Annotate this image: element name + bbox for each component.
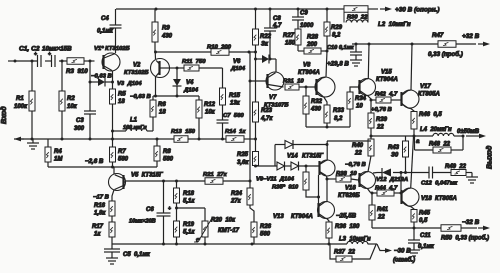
- svg-text:КТ904А: КТ904А: [376, 77, 398, 83]
- resistor R21: [205, 178, 223, 185]
- diode V10: [291, 162, 299, 170]
- ground output: [466, 176, 478, 178]
- svg-text:+32 В: +32 В: [462, 33, 480, 40]
- svg-text:R11 750: R11 750: [182, 59, 206, 65]
- svg-text:З0: З0: [391, 153, 399, 159]
- resistor R12: [196, 100, 202, 118]
- arrow +30V: [380, 8, 388, 10]
- svg-text:150: 150: [285, 41, 296, 47]
- svg-text:С10 0,1мк: С10 0,1мк: [327, 45, 355, 51]
- junction dots bottom rail: [162, 243, 165, 246]
- resistor R15: [220, 88, 226, 105]
- resistor R16: [109, 201, 115, 216]
- svg-text:КТ626Б: КТ626Б: [338, 193, 360, 199]
- wire R6 to L1 node: [152, 117, 154, 131]
- svg-text:КМТ-17: КМТ-17: [218, 228, 240, 234]
- inductor L2: [343, 8, 345, 23]
- resistor R47: [438, 41, 456, 48]
- svg-text:V5 КТ315Г: V5 КТ315Г: [131, 173, 163, 179]
- svg-text:R23: R23: [261, 108, 273, 114]
- svg-text:R19: R19: [183, 222, 195, 228]
- svg-text:С11: С11: [420, 233, 431, 239]
- wire: +30V reference top rail: [116, 8, 344, 10]
- wire V8 collector: [326, 51, 327, 77]
- svg-text:−25,5В: −25,5В: [336, 213, 357, 220]
- svg-text:1000: 1000: [300, 23, 314, 29]
- wire C3/V3 branch: [89, 61, 91, 111]
- svg-text:5,1к: 5,1к: [183, 230, 195, 236]
- svg-text:R47: R47: [432, 32, 444, 39]
- arrow +32V: [478, 43, 486, 45]
- wire V2 base line: [169, 67, 184, 69]
- svg-text:R15: R15: [229, 93, 241, 99]
- capacitor C10: [355, 44, 357, 52]
- svg-text:R38 10: R38 10: [336, 171, 357, 177]
- wire emitter bus y96: [156, 95, 200, 97]
- svg-text:4,7: 4,7: [272, 23, 282, 29]
- wire R34 top to V15 base: [350, 87, 359, 92]
- svg-text:Зк: Зк: [261, 42, 269, 48]
- svg-text:1М: 1М: [54, 157, 63, 163]
- svg-text:18: 18: [118, 99, 125, 105]
- resistor R5: [110, 89, 116, 104]
- svg-text:+: +: [34, 52, 37, 58]
- svg-text:R2: R2: [67, 96, 75, 102]
- wire R22-R23: [255, 45, 257, 102]
- input terminal: [8, 60, 15, 62]
- svg-text:5,1к: 5,1к: [183, 199, 195, 205]
- svg-text:18: 18: [159, 110, 166, 116]
- svg-text:R33: R33: [333, 108, 345, 114]
- svg-text:R9: R9: [162, 26, 170, 32]
- svg-text:R46 0,5: R46 0,5: [419, 112, 442, 118]
- wire V16 emitter: [368, 189, 373, 193]
- capacitor C6: [163, 181, 165, 213]
- arrow output mid: [466, 135, 482, 137]
- wire: input line: [15, 60, 38, 62]
- junction dots +32 rail: [355, 43, 358, 46]
- svg-text:Д104: Д104: [183, 88, 199, 94]
- svg-text:+0,76 В: +0,76 В: [371, 107, 393, 113]
- resistor R39: [370, 100, 372, 113]
- resistor R3: [67, 58, 84, 65]
- svg-text:C4: C4: [101, 16, 109, 22]
- svg-text:10к: 10к: [205, 110, 216, 116]
- svg-text:13к: 13к: [230, 101, 241, 107]
- wire R9 to V2: [154, 42, 156, 52]
- svg-text:R25: R25: [237, 152, 249, 158]
- svg-text:V6: V6: [233, 59, 241, 65]
- resistor R50: [441, 225, 461, 232]
- svg-text:V12 Д219А: V12 Д219А: [376, 177, 408, 183]
- svg-text:V7: V7: [269, 95, 277, 101]
- svg-text:580: 580: [118, 157, 129, 163]
- wire R38 to V16 base: [351, 179, 358, 180]
- arrow -30V: [382, 250, 388, 252]
- transistor V8: [315, 77, 335, 97]
- svg-text:22: 22: [354, 151, 362, 157]
- wire mid Vbe line: [327, 140, 371, 142]
- transistor V2: [151, 59, 170, 78]
- svg-text:100к: 100к: [14, 104, 28, 110]
- wire R35 bottom: [306, 190, 319, 197]
- svg-text:R3 910: R3 910: [66, 68, 88, 75]
- wire mid collector: [326, 141, 328, 160]
- wire R27 bottom: [297, 45, 299, 51]
- svg-text:27к: 27к: [230, 199, 242, 205]
- svg-text:R1: R1: [16, 96, 24, 102]
- resistor R8: [156, 139, 158, 146]
- svg-text:1к: 1к: [94, 232, 101, 238]
- resistor R33: [324, 105, 330, 123]
- transistor V18: [401, 188, 419, 206]
- svg-text:10: 10: [356, 104, 363, 110]
- svg-text:L2 10мкГн: L2 10мкГн: [378, 21, 411, 28]
- svg-text:3,6к: 3,6к: [237, 160, 249, 166]
- wire: Vbe column x318: [318, 175, 320, 209]
- junction dots mid rail: [31, 138, 34, 141]
- wire -30V branch: [377, 244, 382, 251]
- resistor R34: [347, 92, 353, 109]
- transistor V16: [359, 172, 376, 189]
- resistor R10: [211, 49, 229, 56]
- svg-text:+30 В (опорн.): +30 В (опорн.): [395, 7, 440, 14]
- svg-text:R16: R16: [94, 203, 106, 209]
- diode V4: [176, 68, 178, 79]
- svg-text:КТ3102Б: КТ3102Б: [124, 70, 149, 76]
- wire R49 to ground: [466, 172, 472, 174]
- resistor R49: [451, 170, 466, 176]
- svg-text:R18: R18: [183, 191, 195, 197]
- svg-text:V18 КТ805А: V18 КТ805А: [421, 196, 457, 202]
- svg-text:22: 22: [376, 125, 384, 131]
- svg-text:V16: V16: [345, 186, 356, 192]
- wire V18 base vert: [400, 173, 402, 191]
- resistor R26: [251, 222, 257, 237]
- junction dots node a: [370, 135, 373, 138]
- svg-text:С8: С8: [273, 16, 281, 22]
- svg-text:КТ3107Б: КТ3107Б: [264, 103, 289, 109]
- svg-text:C7 560: C7 560: [223, 113, 244, 119]
- svg-text:V15: V15: [381, 70, 392, 76]
- resistor R37 loop: [330, 244, 336, 259]
- wire V1 emitter: [112, 71, 114, 90]
- resistor R2: [59, 91, 65, 111]
- resistor R18: [176, 181, 178, 188]
- svg-text:R4: R4: [54, 149, 62, 155]
- wire R1 branch: [31, 61, 33, 91]
- wire V14 line: [275, 144, 285, 146]
- svg-text:R27: R27: [283, 33, 295, 39]
- resistor R25: [253, 152, 259, 166]
- resistor R44: [372, 192, 377, 194]
- svg-text:0±50мВ: 0±50мВ: [457, 129, 480, 135]
- resistor R31: [285, 84, 299, 90]
- wire: -32V rail: [372, 227, 441, 229]
- svg-text:8,2: 8,2: [334, 116, 343, 122]
- transistor V15: [359, 79, 376, 96]
- svg-text:8,2: 8,2: [332, 33, 341, 39]
- svg-text:C5 0,1мк: C5 0,1мк: [123, 252, 151, 258]
- svg-text:R49 22: R49 22: [445, 164, 467, 170]
- svg-text:L4 20мкГн: L4 20мкГн: [420, 127, 452, 133]
- svg-text:−0,63 В: −0,63 В: [91, 74, 113, 80]
- svg-text:R26: R26: [260, 224, 272, 230]
- svg-text:−32 В: −32 В: [462, 219, 480, 226]
- wire V18 emitter: [411, 207, 414, 210]
- wire R24-R26 link: [250, 205, 254, 222]
- wire V15 collector: [367, 44, 370, 78]
- capacitor C3: [84, 110, 96, 112]
- wire R25 bottom: [255, 165, 257, 168]
- svg-text:L1: L1: [130, 118, 138, 124]
- svg-text:C3: C3: [76, 118, 84, 124]
- arrow -32V: [478, 227, 486, 229]
- resistor R14: [226, 136, 244, 143]
- svg-text:430: 430: [161, 34, 173, 40]
- resistor R42: [371, 99, 376, 101]
- resistor R7: [112, 139, 114, 147]
- resistor R24: [249, 181, 251, 188]
- svg-text:R8: R8: [163, 149, 171, 155]
- wire V1 collector: [115, 28, 117, 53]
- svg-text:R29: R29: [331, 25, 343, 31]
- svg-text:R42 4,7: R42 4,7: [375, 92, 398, 98]
- resistor R43: [405, 136, 407, 141]
- resistor R17: [111, 216, 113, 222]
- resistor R9: [152, 22, 158, 42]
- transistor V1: [102, 53, 120, 71]
- wire V16 collector: [368, 156, 371, 172]
- svg-text:Д104: Д104: [230, 66, 246, 72]
- resistor R30: [344, 6, 368, 13]
- svg-text:КТ805А: КТ805А: [418, 92, 440, 98]
- ground below C11: [408, 249, 420, 251]
- svg-text:200: 200: [306, 42, 318, 48]
- wire V5 collector: [113, 167, 115, 175]
- wire R31 to V8 base: [299, 86, 316, 88]
- svg-text:R44 4,7: R44 4,7: [375, 186, 398, 192]
- thermistor R20: [202, 221, 208, 237]
- resistor R29: [326, 9, 328, 22]
- svg-text:(стаб.): (стаб.): [393, 257, 415, 264]
- wire R20 top link: [177, 207, 206, 209]
- wire V15 emitter: [368, 96, 372, 100]
- junction dots feedback: [162, 180, 165, 183]
- svg-text:C6: C6: [146, 207, 154, 213]
- wire R23 to rail: [255, 122, 257, 152]
- capacitor C12: [428, 167, 430, 179]
- svg-text:R13 150: R13 150: [171, 129, 196, 135]
- wire R44 to V18 base: [394, 192, 401, 194]
- svg-text:100 мкГн: 100 мкГн: [123, 125, 147, 131]
- wire R10 line: [156, 51, 212, 53]
- wire: bus y127: [306, 126, 350, 128]
- svg-text:R36 180: R36 180: [335, 224, 360, 230]
- inductor L3: [347, 241, 368, 244]
- svg-text:R37 22: R37 22: [334, 250, 356, 256]
- svg-text:R45: R45: [419, 211, 431, 217]
- inductor L1: [113, 130, 127, 132]
- diode V3: [90, 81, 98, 83]
- svg-text:R32: R32: [311, 99, 323, 105]
- capacitor C1: [37, 55, 39, 67]
- svg-text:430: 430: [310, 107, 322, 113]
- wire V8 emitter: [324, 97, 328, 106]
- ground below C5: [106, 257, 118, 259]
- svg-text:−0,63 В: −0,63 В: [130, 94, 152, 100]
- diode V9: [277, 162, 285, 170]
- svg-text:V2: V2: [133, 63, 141, 69]
- svg-text:R7: R7: [118, 149, 126, 155]
- arrow mid rail left: [18, 138, 24, 140]
- svg-text:R12: R12: [204, 102, 216, 108]
- wire R11 right to R15 col: [199, 67, 223, 69]
- svg-text:V8: V8: [303, 63, 311, 69]
- wire R5 to rail: [112, 104, 114, 139]
- svg-text:+29,8 В: +29,8 В: [327, 61, 349, 68]
- resistor R13: [174, 136, 188, 143]
- diode V12: [382, 169, 391, 177]
- resistor R48: [433, 147, 451, 153]
- svg-text:−0,76 В: −0,76 В: [345, 162, 367, 168]
- svg-text:R48 22: R48 22: [429, 142, 451, 148]
- svg-text:R21 27к: R21 27к: [203, 172, 228, 178]
- wire R2 branch: [61, 61, 63, 91]
- svg-text:10мк×15В: 10мк×15В: [42, 46, 72, 53]
- svg-text:+: +: [168, 206, 171, 212]
- capacitor C9: [297, 9, 299, 17]
- svg-text:R43: R43: [388, 145, 400, 151]
- resistor R28: [298, 50, 304, 52]
- resistor R32: [305, 87, 307, 96]
- wire V16 coll to bias: [373, 172, 377, 175]
- svg-text:R50 0,33 (проб.): R50 0,33 (проб.): [441, 235, 489, 242]
- wire V7 collector: [275, 59, 277, 73]
- wire mid emitter: [326, 176, 329, 179]
- svg-text:300: 300: [74, 126, 85, 132]
- wire: node a line: [371, 135, 433, 137]
- svg-text:R40: R40: [352, 143, 364, 149]
- resistor R6: [150, 100, 156, 117]
- wire: column A: [249, 52, 251, 181]
- svg-text:КТ904А: КТ904А: [291, 214, 313, 220]
- wire V17 emitter: [411, 109, 414, 112]
- svg-text:R6: R6: [158, 102, 166, 108]
- resistor R41: [371, 193, 373, 205]
- diode V6: [256, 58, 263, 60]
- wire: +32V rail: [352, 43, 438, 45]
- transistor V17: [401, 90, 419, 108]
- svg-text:R14 1к: R14 1к: [225, 129, 246, 135]
- capacitor C5: [111, 244, 113, 249]
- resistor R48 loop: [414, 136, 416, 150]
- svg-text:R31 10: R31 10: [283, 79, 304, 85]
- transistor VT mid КТ315Г: [319, 160, 335, 176]
- svg-text:0,5: 0,5: [419, 218, 428, 224]
- svg-text:R10 200: R10 200: [207, 45, 232, 51]
- svg-text:V17: V17: [420, 84, 431, 90]
- svg-text:R20 10к: R20 10к: [211, 218, 236, 224]
- svg-text:V3 Д104: V3 Д104: [117, 81, 142, 87]
- svg-text:−30 В: −30 В: [394, 248, 411, 255]
- svg-text:0,1мк: 0,1мк: [418, 244, 435, 250]
- ground at input rail: [32, 139, 34, 143]
- wire: feedback line: [126, 180, 206, 182]
- wire C12 to R49: [433, 172, 452, 174]
- resistor R35: [305, 166, 307, 172]
- resistor R40: [370, 136, 372, 139]
- resistor R38: [327, 178, 336, 180]
- svg-text:R34: R34: [355, 96, 367, 102]
- svg-text:10к: 10к: [67, 104, 78, 110]
- capacitor C4: [110, 24, 122, 26]
- svg-text:4,7к: 4,7к: [260, 116, 273, 122]
- svg-text:V4: V4: [186, 80, 194, 86]
- wire: mid rail: [14, 138, 174, 140]
- capacitor C11: [413, 228, 415, 240]
- svg-text:R24: R24: [231, 191, 243, 197]
- resistor R11: [184, 65, 199, 71]
- svg-text:Выход: Выход: [486, 145, 494, 169]
- svg-text:0,1мк: 0,1мк: [97, 29, 114, 35]
- wire V18 collector: [411, 137, 414, 189]
- svg-text:1,8к: 1,8к: [94, 211, 106, 217]
- wire: bottom rail: [112, 243, 347, 245]
- svg-text:0,33 (проб.): 0,33 (проб.): [428, 51, 463, 58]
- svg-text:V9–V11 Д104: V9–V11 Д104: [256, 177, 295, 183]
- svg-text:С12 0,047мк: С12 0,047мк: [421, 181, 458, 187]
- wire: -2,6V line: [48, 166, 157, 168]
- svg-text:R39: R39: [376, 117, 388, 123]
- svg-text:R35* 910: R35* 910: [272, 185, 299, 191]
- diode V14: [285, 141, 293, 149]
- svg-text:580: 580: [163, 157, 174, 163]
- resistor R4: [47, 139, 49, 147]
- svg-text:V1* КТ3102Б: V1* КТ3102Б: [94, 46, 130, 52]
- wire: bias line y172.5: [377, 172, 382, 174]
- svg-text:R28: R28: [307, 35, 319, 41]
- wire V13 emitter: [327, 219, 329, 222]
- resistor R36: [326, 222, 332, 238]
- resistor R22: [255, 9, 257, 29]
- resistor R37: [336, 256, 352, 262]
- wire V2 emitter down: [155, 77, 157, 97]
- capacitor C7: [222, 105, 224, 120]
- svg-text:560: 560: [260, 232, 271, 238]
- svg-text:V14: V14: [287, 154, 298, 160]
- transistor V13: [318, 202, 335, 219]
- resistor R19: [174, 221, 180, 237]
- svg-text:КТ904А: КТ904А: [298, 70, 320, 76]
- svg-text:22: 22: [377, 215, 385, 221]
- wire V17 collector: [411, 44, 412, 90]
- inductor L4: [433, 133, 454, 136]
- resistor R27: [297, 20, 299, 29]
- wire R28 right: [321, 50, 327, 52]
- svg-text:−17 В: −17 В: [93, 195, 110, 201]
- svg-text:L3 10мкГн: L3 10мкГн: [339, 237, 371, 243]
- svg-text:Вход: Вход: [0, 106, 8, 124]
- junction dots on +30V rail: [155, 8, 158, 11]
- transistor V5: [109, 174, 126, 191]
- svg-text:+: +: [48, 52, 51, 58]
- wire V5 emitter: [112, 190, 114, 201]
- capacitor C2: [51, 55, 53, 67]
- svg-text:R5: R5: [118, 92, 126, 98]
- svg-text:R17: R17: [92, 224, 104, 230]
- capacitor C8: [269, 9, 271, 28]
